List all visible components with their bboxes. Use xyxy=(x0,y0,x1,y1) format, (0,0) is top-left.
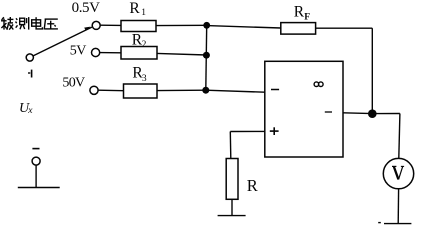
svg-text:F: F xyxy=(304,12,310,22)
svg-text:50V: 50V xyxy=(62,75,85,90)
svg-text:0.5V: 0.5V xyxy=(72,0,101,16)
svg-text:R: R xyxy=(294,4,305,21)
svg-text:R: R xyxy=(247,176,258,195)
svg-text:R: R xyxy=(129,0,140,17)
svg-text:1: 1 xyxy=(141,8,146,18)
svg-text:5V: 5V xyxy=(70,44,86,59)
svg-text:3: 3 xyxy=(142,74,147,84)
svg-text:x: x xyxy=(27,106,33,116)
svg-text:2: 2 xyxy=(142,40,147,50)
